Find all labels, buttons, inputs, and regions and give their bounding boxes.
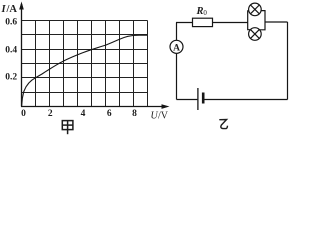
caption 乙 (drawn glyph) — [219, 120, 227, 129]
y-axis I/A — [21, 4, 23, 107]
svg-text:A: A — [173, 43, 180, 53]
battery positive plate (long thin) — [197, 88, 199, 110]
lamp L1 (top) — [249, 3, 262, 16]
svg-text:4: 4 — [81, 109, 86, 119]
svg-text:0.2: 0.2 — [5, 72, 17, 82]
svg-text:0: 0 — [21, 109, 26, 119]
x-axis U/V — [21, 106, 166, 108]
lamp block right side wire — [260, 11, 265, 30]
graph grid horizontal lines — [21, 21, 148, 93]
svg-text:0.4: 0.4 — [5, 45, 17, 55]
svg-text:2: 2 — [48, 109, 53, 119]
wire lamp block to right corner — [265, 21, 288, 23]
graph grid vertical lines — [36, 21, 148, 107]
right vertical wire — [287, 22, 289, 100]
left vertical wire upper segment — [176, 23, 178, 41]
circuit: top wire from ammeter corner to resistor — [176, 22, 193, 24]
svg-text:/V: /V — [158, 111, 169, 122]
battery negative plate (short thick) — [202, 93, 205, 104]
wire resistor to lamp block — [213, 22, 248, 24]
svg-text:0.6: 0.6 — [5, 18, 17, 28]
lamp L2 (bottom) — [249, 28, 262, 41]
bottom wire left of battery — [177, 99, 198, 101]
svg-text:0: 0 — [203, 9, 207, 17]
svg-text:/A: /A — [6, 4, 18, 15]
svg-text:6: 6 — [107, 109, 112, 119]
bottom wire right of battery — [204, 99, 287, 101]
left vertical wire lower segment — [176, 53, 178, 99]
x-axis arrowhead — [162, 104, 170, 109]
svg-text:8: 8 — [132, 109, 137, 119]
I-U curve — [22, 35, 147, 106]
ammeter A — [170, 40, 183, 53]
lamp block left side wire — [248, 11, 251, 30]
y-axis arrowhead — [19, 2, 24, 10]
resistor R0 box — [193, 18, 213, 26]
caption 甲 (drawn glyph) — [62, 121, 73, 135]
svg-text:R: R — [196, 6, 204, 17]
